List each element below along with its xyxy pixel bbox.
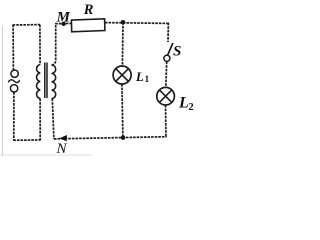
wire: right branch top corner to switch: [167, 23, 169, 42]
svg-text:2: 2: [188, 101, 194, 113]
node M junction dot: [61, 22, 65, 26]
svg-text:S: S: [173, 44, 181, 60]
lamp L1 cross: [116, 69, 129, 82]
svg-text:R: R: [83, 2, 94, 18]
wire: L1 branch lower: [122, 84, 123, 138]
wire: primary loop bottom: [13, 139, 40, 141]
svg-text:1: 1: [145, 74, 150, 84]
wire: top wire resistor to right corner: [105, 22, 169, 25]
AC source terminal circle top: [11, 70, 18, 77]
svg-text:M: M: [56, 9, 71, 25]
svg-text:N: N: [56, 141, 68, 156]
lamp L2 cross: [160, 90, 172, 102]
svg-text:L: L: [135, 69, 144, 84]
scan artifact bottom edge line: [0, 154, 92, 156]
switch S blade: [168, 43, 173, 55]
lamp L2 bulb circle: [157, 87, 175, 105]
junction dot top (L1 branch): [121, 20, 126, 25]
transformer T primary winding: [37, 65, 41, 99]
lamp L1 bulb circle: [113, 66, 131, 84]
junction dot bottom (L1 branch): [121, 135, 126, 140]
switch S pivot circle: [164, 55, 170, 61]
wire: secondary lead coil top to node M: [52, 24, 56, 65]
wire: top wire node M to resistor: [55, 22, 72, 24]
transformer core line left: [44, 63, 46, 99]
scan artifact left edge line: [2, 26, 4, 156]
node N arrow: [59, 135, 67, 141]
AC source terminal circle bottom: [10, 85, 17, 92]
wire: primary loop left lower: [13, 92, 15, 140]
AC source tilde: [8, 80, 19, 83]
resistor R body: [71, 19, 105, 32]
wire: lamp L2 to bottom corner: [165, 105, 168, 138]
wire: bottom wire node N to right corner: [54, 137, 167, 139]
wire: switch to lamp L2: [165, 62, 168, 88]
wire: primary lead from coil bottom: [39, 99, 41, 141]
wire: secondary lead coil bottom to node N: [52, 99, 54, 139]
transformer T secondary winding: [52, 65, 56, 99]
transformer core line right: [46, 63, 48, 99]
wire: primary loop left upper: [12, 25, 14, 70]
wire: primary lead to coil top: [39, 25, 41, 65]
wire: L1 branch upper: [121, 22, 124, 66]
wire: primary loop top: [13, 24, 40, 26]
